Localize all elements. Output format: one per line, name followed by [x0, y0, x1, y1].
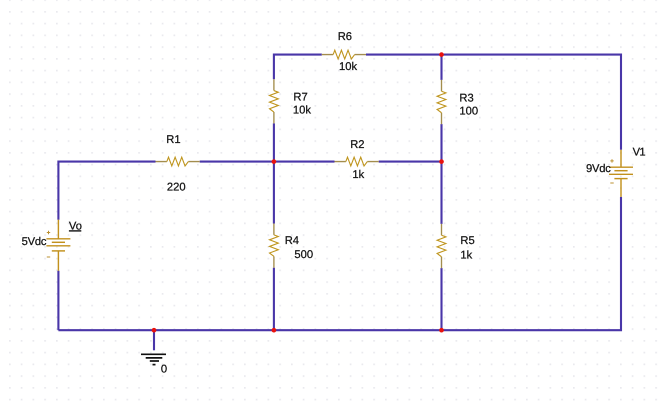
wire R1 to node B [200, 161, 274, 163]
resistor R7 [270, 79, 279, 123]
wire node B to R2 [274, 161, 335, 163]
svg-text:220: 220 [167, 182, 186, 194]
ground 0 [141, 354, 166, 364]
voltage source V1 9Vdc (battery) [609, 150, 633, 197]
svg-text:0: 0 [161, 363, 167, 375]
svg-text:1k: 1k [352, 169, 364, 181]
svg-text:500: 500 [294, 249, 313, 261]
svg-text:5Vdc: 5Vdc [22, 236, 47, 248]
resistor R1 [156, 157, 200, 166]
svg-text:R4: R4 [285, 235, 299, 247]
svg-text:100: 100 [459, 105, 478, 117]
wire V1 to bottom-right corner [58, 197, 621, 330]
resistor R6 [322, 50, 366, 59]
wire left battery to bottom-left corner [57, 271, 59, 331]
wire R3 to node C [440, 124, 442, 162]
wire row2 left (V source to R1) [58, 162, 155, 220]
junction ground node [152, 328, 157, 333]
wire R4 to bottom node [273, 268, 275, 331]
resistor R5 [437, 224, 446, 268]
wire top left (node B col to R6) [274, 55, 322, 80]
underline Vo [69, 230, 81, 232]
resistor R4 [270, 224, 279, 268]
svg-text:R3: R3 [459, 93, 473, 105]
svg-text:R6: R6 [338, 31, 352, 43]
wire R5 to bottom node [440, 268, 442, 330]
junction node C [439, 159, 444, 164]
svg-text:1k: 1k [460, 249, 472, 261]
svg-text:R1: R1 [166, 134, 180, 146]
svg-text:V1: V1 [633, 147, 646, 159]
wire node C to R5 [440, 162, 442, 224]
svg-text:R2: R2 [350, 139, 364, 151]
junction bottom node C [439, 328, 444, 333]
svg-text:R5: R5 [460, 235, 474, 247]
junction top node [439, 52, 444, 57]
svg-text:R7: R7 [293, 92, 307, 104]
wire node B to R4 [273, 162, 275, 224]
wire R2 to node C [379, 161, 442, 163]
wire top node to R3 [440, 55, 442, 80]
wire R6 to top-right corner down to V1 [366, 55, 621, 150]
svg-text:10k: 10k [293, 105, 311, 117]
junction bottom node B [272, 328, 277, 333]
wire ground stub [153, 330, 155, 350]
voltage source V_5Vdc (battery) [46, 220, 70, 271]
resistor R2 [335, 157, 379, 166]
svg-text:10k: 10k [339, 61, 357, 73]
junction node B [272, 159, 277, 164]
resistor R3 [437, 80, 446, 124]
svg-text:9Vdc: 9Vdc [586, 163, 611, 175]
wire R7 bottom to node B [273, 123, 275, 161]
